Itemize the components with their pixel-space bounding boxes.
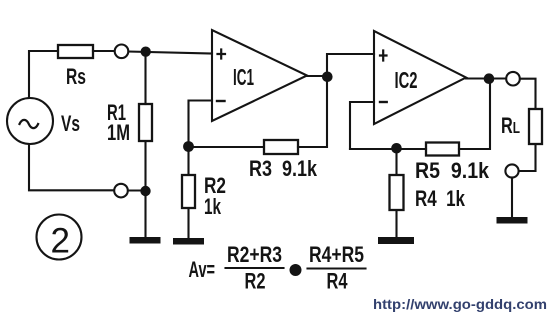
wire IC2 output	[466, 77, 506, 79]
resistor R2	[182, 175, 195, 208]
wire R1 to ground	[144, 141, 146, 237]
wire R5 to IC2 output node	[459, 79, 490, 149]
svg-text:R4+R5: R4+R5	[309, 242, 364, 267]
wire Rs to input terminal	[93, 50, 114, 52]
IC1 plus pin mark	[218, 50, 226, 59]
ground (RL)	[497, 217, 528, 224]
node IC1 output (dot)	[322, 72, 333, 83]
wire terminal to IC1 + input	[129, 52, 213, 54]
svg-text:R3 9.1k: R3 9.1k	[249, 156, 318, 181]
svg-text:IC1: IC1	[233, 64, 254, 90]
op-amp IC2	[374, 31, 466, 124]
wire bottom terminal to node	[128, 189, 146, 191]
svg-text:http://www.go-gddq.com: http://www.go-gddq.com	[373, 296, 547, 312]
resistor Rs	[58, 45, 93, 58]
wire IC2 inverting input	[350, 102, 374, 149]
node junction top (dot)	[141, 47, 151, 57]
op-amp IC1	[212, 30, 307, 121]
svg-text:R4: R4	[327, 269, 349, 294]
fraction bar 1	[226, 267, 284, 269]
output terminal top (open circle)	[506, 72, 520, 86]
wire source top to Rs	[29, 51, 58, 98]
wire terminal to ground	[511, 178, 513, 218]
resistor R4	[390, 175, 404, 210]
wire node to R3	[189, 146, 264, 148]
svg-text:1k: 1k	[204, 194, 222, 219]
multiplication dot	[290, 264, 302, 276]
wire node to R2 and R2 to ground	[187, 147, 189, 238]
wire IC1 inverting input	[189, 101, 213, 148]
node junction bottom (dot)	[140, 186, 150, 196]
node junction R2/R3 (dot)	[183, 141, 194, 152]
resistor R3	[264, 140, 298, 154]
svg-text:RL: RL	[501, 113, 520, 138]
svg-text:R2: R2	[245, 269, 266, 294]
svg-text:1M: 1M	[107, 120, 130, 145]
svg-text:Rs: Rs	[66, 64, 86, 89]
svg-text:R2+R3: R2+R3	[227, 242, 282, 267]
svg-text:R5 9.1k: R5 9.1k	[415, 158, 490, 183]
input terminal top (open circle)	[115, 45, 129, 59]
resistor R1	[139, 104, 152, 141]
resistor R5	[426, 143, 459, 156]
wire RL to output terminal bottom	[519, 144, 536, 171]
svg-text:2: 2	[51, 222, 70, 261]
wire output terminal to RL	[520, 79, 536, 109]
wire IC1 output	[307, 75, 327, 77]
node junction R4/R5 (dot)	[391, 143, 402, 154]
IC2 minus pin mark	[380, 101, 387, 103]
wire R3 to IC1 output node	[298, 77, 327, 147]
IC2 plus pin mark	[380, 51, 387, 61]
svg-text:Vs: Vs	[61, 111, 80, 136]
ground (R4)	[378, 237, 414, 244]
svg-text:Av=: Av=	[189, 257, 216, 282]
resistor RL	[529, 109, 542, 144]
ground (R1)	[130, 237, 161, 244]
node IC2 output (dot)	[484, 73, 495, 84]
input terminal bottom (open circle)	[114, 184, 128, 198]
wire IC1 output to IC2 + input	[327, 54, 374, 76]
figure number circle 2	[37, 215, 82, 260]
svg-text:R4 1k: R4 1k	[415, 186, 466, 211]
svg-text:IC2: IC2	[395, 67, 418, 93]
voltage source Vs	[7, 98, 53, 144]
IC1 minus pin mark	[217, 100, 225, 102]
wire source bottom	[29, 144, 114, 190]
wire feedback to R5	[350, 148, 426, 150]
ground (R2)	[173, 238, 204, 245]
wire node to R1	[144, 52, 146, 104]
fraction bar 2	[308, 267, 366, 269]
wire node to R4 and R4 to ground	[395, 149, 397, 237]
output terminal bottom (open circle)	[505, 164, 518, 177]
